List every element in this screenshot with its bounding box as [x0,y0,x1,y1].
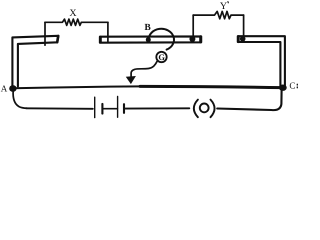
wire: X left riser [44,22,46,45]
svg-text:B: B [144,23,150,33]
middle copper strip [100,36,201,42]
key K left parenthesis [194,100,198,118]
battery cell 1 short plate [101,104,103,114]
wire: bridge wire A to C (left part) [13,86,140,88]
wire: A down to battery loop [13,91,27,109]
wire: arc from B over strip to galvanometer [149,29,174,50]
svg-text:X: X [69,8,77,19]
key K plug circle [200,104,209,113]
wire: Y left riser [192,15,194,37]
wire: battery to key [124,107,189,109]
galvanometer G [156,52,166,62]
left copper strip (L-shaped bar) [12,36,58,87]
wire: galvanometer to jockey [131,61,157,77]
resistor Y [193,11,243,18]
jockey arrowhead [126,76,136,84]
node C [279,85,287,91]
wire: X right riser [107,22,109,41]
node B dot [146,37,151,42]
battery cell 1 long plate [94,97,96,117]
wire: bottom left [26,107,93,110]
battery cell 2 long plate [117,97,119,118]
battery cell 2 short plate [123,104,125,113]
right copper strip (bent down at right) [238,36,285,86]
wire: Y right riser [243,15,245,37]
svg-text:G: G [158,53,165,62]
key K right parenthesis [211,100,215,118]
svg-text:Y: Y [220,1,227,12]
wire: battery connector [102,108,117,110]
node: middle strip right junction dot [189,36,195,42]
svg-text:A: A [1,83,8,93]
wire: key to C [217,91,281,111]
node A [9,85,16,92]
svg-text:C: C [289,80,295,90]
wire: bridge wire A to C (right part) [140,86,283,87]
resistor X [45,19,108,25]
node: right strip junction dot [240,36,246,42]
